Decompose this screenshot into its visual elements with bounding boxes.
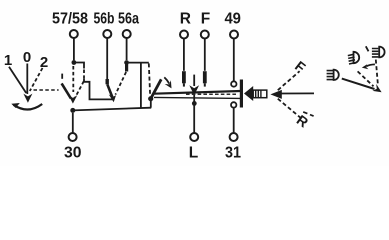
svg-text:57/58: 57/58 [52, 11, 88, 28]
headlight lever solid [342, 79, 375, 89]
wire down to terminal 31 [233, 108, 235, 133]
svg-text:2: 2 [40, 54, 48, 71]
rotary pointer line position 0 [26, 64, 28, 95]
junction dot on bus [70, 108, 75, 113]
headlight symbol top bars [372, 49, 379, 57]
contact blob R [182, 71, 186, 83]
svg-text:30: 30 [64, 144, 82, 161]
branch wire dashed section [83, 70, 85, 80]
direction fan dashed ray R [278, 99, 301, 119]
actuator arrowhead [244, 86, 253, 101]
branch wire to bracket [84, 79, 113, 99]
rotary motion arc [14, 104, 43, 110]
branch wire 56a to turn-signal pivot [129, 62, 149, 64]
headlight symbol low (parking) bars [327, 71, 334, 80]
wire 57/58 down [73, 38, 75, 60]
rotary pointer line position 1 [9, 67, 26, 93]
terminal circle 30 [69, 133, 77, 141]
contact circle below shaft [231, 102, 236, 107]
shaft bottom line [154, 97, 240, 98]
wire left side of R pivot frame [140, 63, 142, 109]
terminal circle R [180, 31, 188, 39]
flasher arrow line [366, 64, 375, 66]
svg-text:0: 0 [23, 49, 31, 66]
rotary arc arrowhead [11, 103, 19, 108]
svg-text:F: F [292, 58, 309, 76]
direction fan dashed ray F [278, 71, 300, 90]
headlight symbol top lens [379, 47, 384, 58]
shaft end plate [240, 80, 243, 108]
actuator tail box [253, 90, 267, 98]
terminal circle L [190, 133, 198, 141]
pivot dot R contact [148, 96, 153, 101]
terminal circle 56b [103, 30, 111, 38]
switch lever 57/58 solid [62, 83, 71, 98]
wire F down [204, 39, 206, 71]
wire 49 down [233, 39, 235, 81]
tick near top headlight [366, 46, 369, 51]
terminal circle 31 [230, 133, 238, 141]
contact arm L above shaft [193, 75, 195, 86]
headlight symbol low (parking) lens [334, 70, 339, 80]
svg-text:1: 1 [4, 52, 12, 69]
contact circle above shaft [231, 81, 236, 86]
pivot arrowhead 57/58 lever [69, 95, 78, 103]
actuator tail hatching [256, 90, 261, 97]
extra dash after R [303, 112, 313, 116]
direction fan solid line [281, 92, 315, 94]
junction dot on 57/58 wire [72, 60, 77, 65]
terminal circle 57/58 [70, 30, 78, 38]
wire L below shaft [193, 94, 195, 133]
switch lever 57/58 dashed right position [75, 81, 84, 97]
branch wire from 57/58 junction [74, 63, 84, 69]
junction dot on 56a wire [124, 60, 129, 65]
terminal circle 49 [230, 31, 238, 39]
svg-text:F: F [201, 11, 210, 28]
svg-text:56a: 56a [118, 11, 139, 28]
junction dot L wire [192, 101, 197, 106]
fixed contact tick position 1 [61, 74, 63, 79]
dashed link wire to switch lever [34, 89, 59, 91]
shaft hatch marks [186, 93, 237, 95]
headlight symbol mid lens [354, 52, 360, 63]
shaft top line [154, 91, 240, 94]
svg-text:31: 31 [225, 144, 241, 161]
wire 56b down [106, 38, 108, 79]
link wire pivot to bus [150, 101, 152, 108]
dimmer lever dashed 56a position [115, 72, 126, 95]
svg-text:49: 49 [224, 11, 241, 28]
contact arrowhead L [189, 85, 199, 95]
contact blob F [203, 71, 207, 83]
bus wire to terminal 30 [73, 108, 151, 111]
svg-text:R: R [180, 11, 191, 28]
stub below 56a junction [125, 65, 128, 72]
terminal circle 56a [123, 30, 131, 38]
contact tip R [183, 83, 185, 86]
wire down to terminal 30 [72, 113, 74, 133]
contact blob 56b [105, 79, 108, 84]
motion arrowhead [165, 80, 172, 88]
dimmer lever solid 56b [107, 84, 112, 98]
flasher arrowhead [362, 64, 369, 69]
switch lever 57/58 dashed middle position [72, 66, 74, 92]
headlight symbol mid bars [348, 54, 356, 64]
wire 56a down [126, 38, 128, 60]
rotary pointer arrowhead [23, 94, 32, 103]
direction fan arrowhead [270, 90, 281, 99]
dimmer lever tip arrowhead [109, 94, 116, 102]
svg-text:R: R [294, 112, 312, 131]
svg-text:L: L [189, 144, 198, 161]
dashed neutral position wire R pivot [149, 63, 150, 94]
headlight dashed ray from mid lamp [358, 71, 374, 86]
wire R down [183, 39, 185, 71]
contact tip F [204, 83, 206, 86]
terminal circle F [201, 31, 209, 39]
svg-text:56b: 56b [94, 11, 115, 28]
headlight dashed ray vertical [376, 60, 378, 86]
motion arrow of R lever [164, 77, 169, 83]
turn-signal lever R solid [151, 79, 162, 98]
rotary pointer dashed line position 2 [30, 68, 43, 91]
headlight lever arrowhead [373, 84, 382, 92]
